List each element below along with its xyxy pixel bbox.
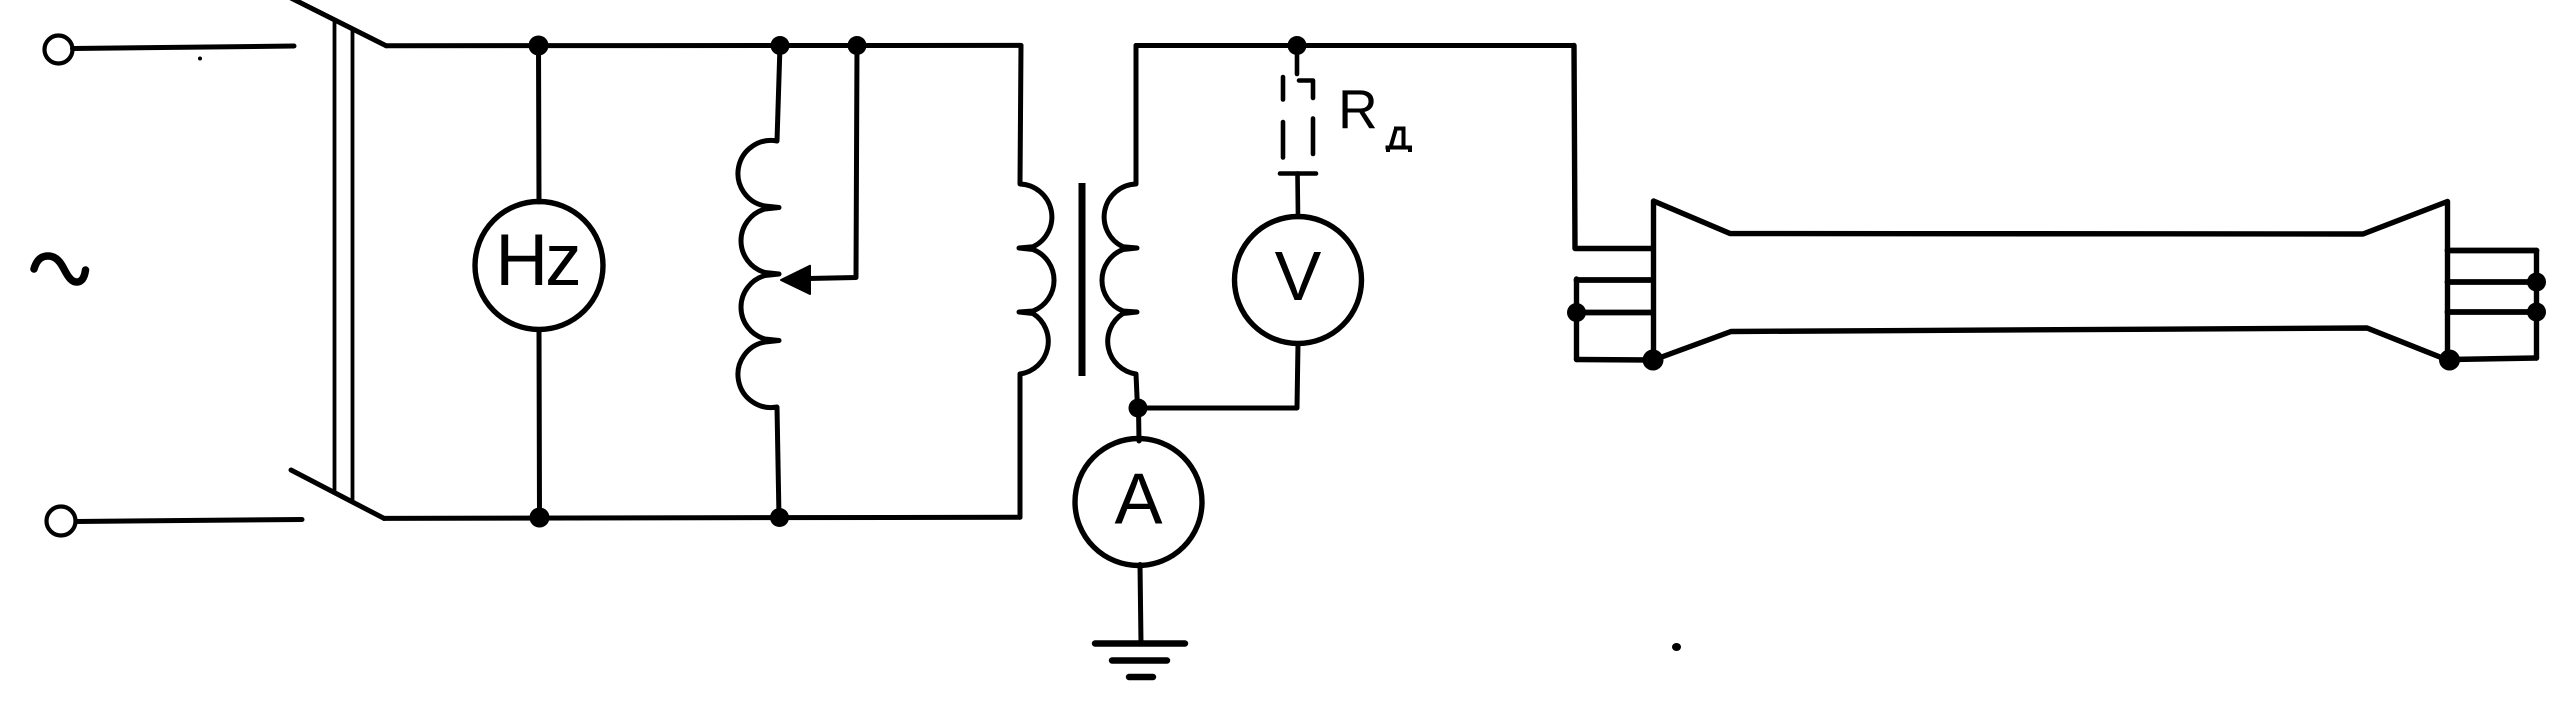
junction: Hz meter bottom (530, 508, 550, 528)
voltmeter V (1235, 217, 1362, 344)
svg-text:A: A (1114, 460, 1162, 540)
terminal X1 (top-left input) (45, 36, 73, 64)
junction: Hz meter top (529, 36, 549, 56)
junction: horn bottom-left (1643, 350, 1664, 371)
wire: right busbar bottom (2450, 358, 2537, 360)
transformer T1 core (1079, 183, 1086, 376)
wire: V bottom to secondary bottom node (1138, 344, 1298, 409)
wire: horn feed (top bus down to left stub 1) (1574, 46, 1653, 249)
transducer left stub 2 (1577, 277, 1654, 283)
variac wiper arrow (781, 266, 810, 294)
transducer right stub C (2448, 309, 2537, 315)
junction: horn bottom-right (2439, 350, 2460, 371)
junction: variac top (771, 36, 790, 55)
wire: node to ammeter (1136, 408, 1142, 441)
junction: right stub C (2527, 303, 2546, 322)
svg-text:V: V (1275, 237, 1322, 315)
ammeter A (1075, 439, 1202, 566)
transformer T1 primary winding (1019, 46, 1054, 518)
transducer right stub A (2448, 248, 2537, 254)
autotransformer AT1 winding (738, 46, 780, 518)
wire: left busbar bottom (1577, 357, 1653, 363)
transducer right busbar (2534, 251, 2539, 359)
wire: secondary top bus to horn feed (1136, 43, 1574, 48)
junction: Rd top (1288, 36, 1307, 55)
wire: ammeter to ground (1140, 565, 1141, 644)
frequency meter Hz (475, 202, 603, 330)
ink speck (1672, 643, 1681, 651)
switch S1 linkage bar 2 (351, 30, 355, 503)
wire: variac tap feed (808, 46, 857, 279)
wire: Hz meter top lead (536, 46, 542, 203)
junction: right stub B (2527, 273, 2546, 292)
resistor Rd (dashed, optional) (1280, 49, 1316, 217)
transducer left busbar (1574, 279, 1579, 360)
junction: variac tap top (848, 36, 867, 55)
wire: bottom bus from S1 to transformer primary (384, 517, 1020, 518)
switch S1 top blade (291, 0, 386, 46)
junction: left busbar tap (1567, 303, 1586, 322)
switch S1 linkage bar 1 (333, 20, 337, 493)
svg-text:Hz: Hz (495, 220, 578, 301)
ink speck 2 (198, 57, 202, 61)
wire: top bus from S1 to transformer primary (386, 43, 1021, 48)
wire: Hz meter bottom lead (537, 330, 543, 518)
switch S1 bottom blade (291, 470, 384, 518)
AC source symbol (34, 256, 86, 282)
transducer right stub B (2448, 279, 2537, 285)
ground symbol (1095, 644, 1185, 678)
wire: X1 to switch S1 top (73, 46, 295, 49)
wire: X2 to switch S1 bottom (76, 520, 302, 522)
svg-text:R: R (1338, 78, 1378, 140)
junction: secondary bottom node (1129, 399, 1148, 418)
junction: variac bottom (770, 508, 789, 527)
transducer left stub 3 (1577, 310, 1654, 316)
terminal X2 (bottom-left input) (47, 507, 76, 536)
transformer T1 secondary winding (1102, 46, 1138, 409)
horn concentrator outline (1654, 201, 2448, 360)
